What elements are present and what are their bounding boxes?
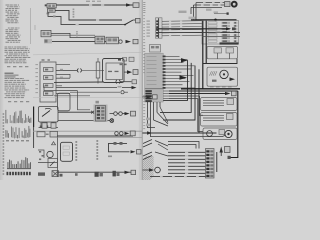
legend text block L2: [8, 28, 10, 29]
relay K1 lower section: [48, 9, 56, 12]
bundle labels: [185, 152, 188, 153]
top-right wire bundle w2: [194, 4, 226, 6]
FA right pads: [234, 22, 238, 24]
W6 connector rings: [113, 40, 116, 43]
wire W120: [58, 120, 94, 122]
component G1 cluster left: [41, 30, 51, 36]
relay K2 box: [39, 107, 59, 123]
small bottom marks: [60, 174, 63, 177]
fuse wires right: [56, 63, 70, 65]
fuse cells: [44, 68, 54, 72]
arrow connector on y93.5: [225, 92, 231, 95]
wire W112 into cluster: [70, 111, 94, 113]
wire W5: [51, 34, 95, 36]
ECU box border: [145, 53, 164, 102]
wires XS to fuse array: [162, 20, 202, 23]
K3 marks: [52, 142, 56, 145]
U-loop wire: [109, 143, 130, 151]
instrument cluster box: [103, 59, 125, 83]
vertical label text mid top: [73, 9, 75, 11]
connectors on y136 wire: rings and arrow: [115, 132, 119, 136]
left-edge comp arrow row2: [143, 132, 217, 134]
vertical bus vb199: [199, 69, 217, 133]
diag merge wires 2: [155, 141, 168, 157]
small tick x35: [34, 25, 36, 30]
label on y32.5: [216, 31, 221, 33]
wire W4: [51, 33, 95, 37]
bundle risers: [191, 3, 196, 20]
panel border y137.5: [57, 137, 142, 139]
relay K1 with label: [45, 4, 47, 6]
top-right wire bundle w3: [191, 6, 222, 8]
legend header H4: [5, 73, 14, 74]
rotated left margin text: [3, 113, 5, 115]
ECU internal text rows: [147, 56, 157, 57]
round connector XR1: [225, 2, 231, 7]
rotated page-edge text right of divider (middle): [143, 42, 145, 43]
XS pin rows: [156, 20, 158, 22]
W82 continue: [121, 81, 132, 83]
bottom arrow connector: [125, 171, 130, 174]
row1 boxes right of cluster top: [118, 58, 121, 61]
vertical bus vb191: [160, 63, 191, 113]
vertical bus vb187: [163, 60, 187, 100]
lower ECU drop wires: [148, 102, 156, 128]
headlight unit box: [61, 142, 73, 161]
washer pump box RB2: [207, 67, 238, 86]
row labels left of fuse panel: [35, 64, 38, 65]
row2 dashes: [120, 64, 123, 66]
panel border y131: [33, 130, 142, 132]
heavy bus x33.5: [33, 107, 35, 128]
small label under bundle: [206, 9, 212, 11]
heavy wire y29: [156, 28, 226, 30]
heavy wire y20: [191, 19, 237, 21]
wire W95: [54, 95, 90, 97]
wire from W90 down: [78, 91, 91, 110]
fuse comp vertical FV: [96, 62, 100, 78]
loop wire y63.5: [203, 59, 237, 64]
relay K2 switch diagonal: [42, 111, 50, 117]
small boxes under K2: [42, 123, 47, 128]
bottom wire y172: [58, 171, 137, 173]
faint panel rule y54: [33, 52, 141, 54]
wire y32.5: [156, 32, 240, 34]
junction dot: [214, 19, 217, 22]
wire W78 bend down: [56, 74, 70, 78]
RB2 motor circle: [220, 70, 228, 78]
cluster box 2: [106, 37, 119, 44]
connectors on U-loop: [114, 142, 117, 145]
up arrow comp: [220, 147, 223, 153]
left-edge comp arrow row4: [143, 169, 150, 171]
legend/schematic separator line top panel: [30, 8, 32, 44]
instrument cluster inner box: [106, 63, 123, 80]
connector marks near right bend: [228, 156, 231, 159]
relay K2 pins: [40, 122, 42, 125]
wire W70 to cluster: [82, 69, 105, 71]
connector cluster bottom 1: [95, 172, 99, 177]
wire y136.6: [157, 136, 222, 138]
far right vertical bus: [231, 91, 238, 158]
box right of arrow: [225, 147, 231, 153]
RB1 internal wires: [217, 53, 219, 59]
FA cells left column: [208, 22, 217, 24]
wire under K2: [39, 127, 59, 129]
wire W92: [70, 91, 120, 93]
W92 connector rings: [121, 91, 124, 94]
wire W1 top: [56, 4, 133, 6]
label on heavy wire: [189, 17, 196, 20]
wires small right of lower cells: [163, 90, 169, 92]
page divider line: [141, 0, 143, 180]
footer comps row left-page: [38, 172, 45, 175]
relay K3 cluster: [37, 132, 45, 137]
cluster boxes bottom mid top-panel: [95, 36, 105, 44]
wire W82 long: [54, 81, 104, 83]
legend text block L1: [6, 5, 10, 6]
switch S1 output box: [136, 18, 141, 23]
bottom-left misc marks: [39, 151, 41, 153]
wire top of bottom panel y136: [57, 135, 133, 137]
connector row y114 rings: [114, 112, 118, 116]
ECU pin rows right edge: [163, 56, 166, 58]
left page edge shading: [0, 0, 2, 180]
wire y36.5: [202, 35, 240, 37]
wire W2 from K1 down: [48, 12, 122, 24]
vertical bus vb195: [163, 66, 195, 120]
cluster label above: [96, 101, 99, 104]
small rounded box B2: [58, 93, 71, 111]
ECU gray box: [145, 53, 164, 102]
ECU lower-left pin cells: [145, 90, 151, 92]
cluster out wire: [108, 120, 111, 122]
module RC2: [201, 113, 238, 127]
ECU arrow A1: [181, 58, 188, 62]
ECU mid border dark: [145, 88, 164, 90]
rotated page-edge text right of divider (top): [143, 2, 145, 3]
heavy vertical v202: [202, 21, 204, 89]
component G1b: [44, 39, 52, 44]
fuse array box FA: [202, 21, 239, 44]
legend bar list baseline: [7, 167, 31, 170]
diagonal hatch lower corner of right page: [142, 149, 154, 187]
fuse panel header ticks: [42, 59, 45, 60]
RB1 inner comps: [214, 48, 222, 53]
legend text block L5 (vertical stroke texture): [5, 110, 8, 123]
switch S1: [122, 24, 125, 26]
left feed verticals for stacked modules: [200, 96, 204, 115]
faint panel rule y97: [33, 96, 142, 98]
strip right vertical: [216, 152, 218, 172]
wire label ticks W4: [76, 31, 78, 33]
vertical label text x76: [75, 141, 77, 143]
module RC3: [203, 128, 237, 140]
connector arrow X1: [126, 3, 132, 6]
legend text block L3: [5, 47, 8, 48]
text under bus: [210, 86, 214, 87]
FA cells right column: [222, 22, 231, 24]
X junction mark: [91, 111, 94, 114]
ECU arrow A2: [180, 75, 188, 79]
connector strip CS: [206, 149, 215, 179]
comp above ECU: [150, 45, 161, 53]
upper bundle into strip top: [168, 142, 199, 149]
ECU pin wires: [166, 55, 180, 57]
labels left of XS: [147, 21, 150, 22]
wire W87: [56, 87, 117, 89]
bottom panel left bus: [57, 138, 59, 177]
rotated page-edge text right of divider (upper-mid): [143, 15, 145, 16]
top-right wire bundle w1: [196, 2, 225, 4]
heavy bus y88.8: [181, 88, 240, 90]
wire W2 label: [96, 19, 99, 21]
module RC1: [201, 98, 238, 111]
label under U-loop: [108, 156, 112, 158]
cluster out connector: [133, 70, 138, 75]
legend separator dashes: [7, 66, 10, 67]
W87 arrow to divider: [132, 86, 137, 89]
wire W3: [55, 10, 122, 20]
wire W90: [44, 85, 78, 90]
terminator symbol: [110, 119, 114, 123]
wire W1 label: [89, 4, 92, 6]
horizontal bundle into connector strip: [168, 151, 206, 153]
U-loop arrow: [131, 150, 136, 153]
legend color-code bar list: [7, 162, 10, 168]
bundle label breaks: [203, 2, 206, 3]
headlight inner marks: [63, 146, 70, 149]
arrow on y29: [226, 27, 231, 30]
diagonal merge wires: [154, 107, 169, 126]
RB2 hatch marks: [210, 71, 212, 75]
W6 end connector: [133, 39, 138, 43]
connector on W2: [47, 13, 50, 15]
legend text block L4: [5, 78, 8, 79]
gray connector cluster CC: [94, 105, 108, 123]
legend separator dashes 3: [6, 140, 9, 141]
fuse panel F left: [40, 62, 56, 102]
connector strip XS top: [156, 18, 163, 38]
motor M1 cluster: [47, 151, 53, 157]
label left of risers: [179, 11, 187, 13]
bottom-right wire y176.5: [150, 176, 206, 178]
W87 label: [118, 86, 122, 88]
legend separator dashes 2: [8, 101, 11, 102]
circle connector right: [225, 130, 232, 137]
wire from K2 right: [58, 111, 70, 113]
page header marks top-center: [86, 1, 90, 2]
heavy vertical v206: [205, 21, 207, 64]
wire color labels on fan: [169, 21, 171, 22]
small label boxes left lower: [146, 118, 150, 121]
W82 connector pair: [116, 80, 117, 84]
dark row bottom of FA: [220, 42, 239, 44]
RB2 arrow: [230, 77, 236, 81]
relay module box RB1: [207, 46, 238, 58]
W6 arrow: [126, 40, 132, 43]
wire labels near fuse outputs: [60, 69, 63, 70]
cluster internal wire and arrow: [124, 71, 127, 73]
connector cluster bottom 2: [113, 171, 116, 177]
paper background: [0, 0, 240, 180]
left-edge switch diagonals: [143, 140, 152, 148]
label text above W6: [101, 36, 103, 40]
right wires from lower ECU going right: [169, 90, 238, 92]
footer symbol row: [7, 172, 9, 175]
RB2 small marks: [212, 80, 217, 82]
left-edge comp arrow row1: [147, 95, 152, 98]
gutter shading left of divider: [139, 0, 142, 180]
short wire to connector bottom: [214, 13, 227, 15]
rotated page-edge text right of divider (lower): [143, 95, 145, 96]
wire W6 long: [52, 41, 112, 43]
vertical label text x97: [96, 140, 98, 142]
labels on bottom wire: [160, 176, 163, 178]
connector pair on W70: [77, 69, 78, 73]
